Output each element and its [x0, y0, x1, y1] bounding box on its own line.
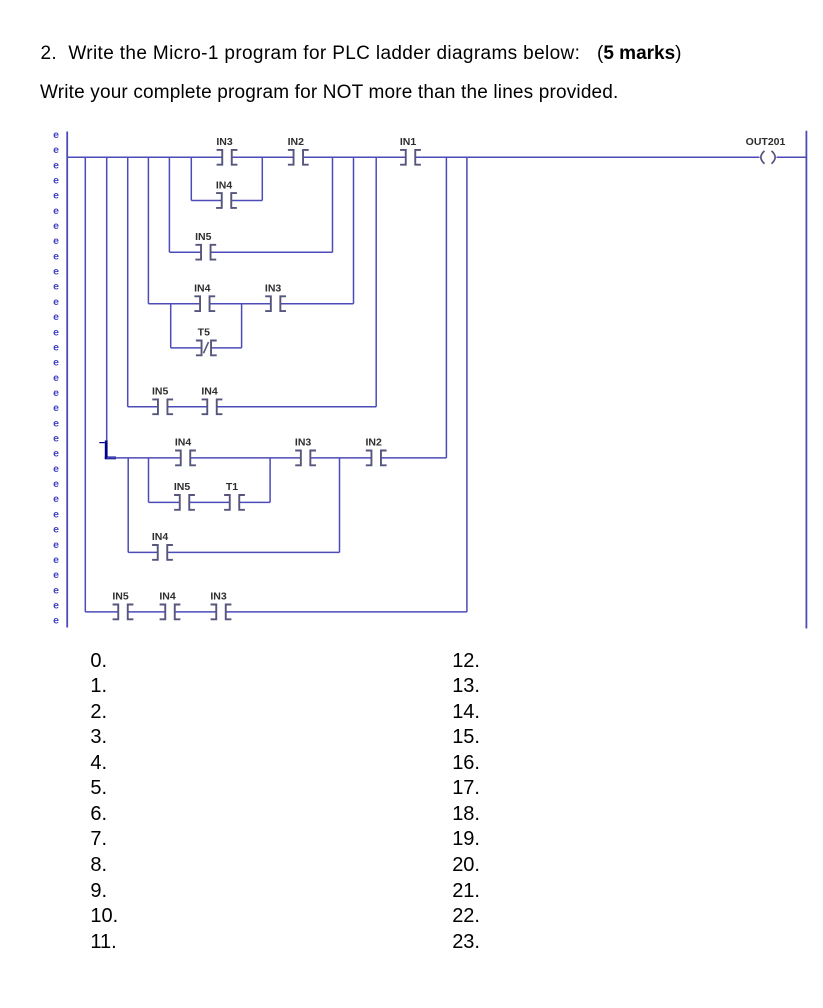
T5 branch left vertical: [170, 304, 172, 348]
svg-text:IN4: IN4: [159, 591, 176, 603]
contact IN3 (rung 1): [216, 136, 237, 165]
row 2 right vertical up to rung 1: [261, 157, 263, 200]
contact IN4 (row 9): [159, 591, 180, 620]
T5 branch right vertical: [241, 304, 243, 348]
row 9 wire segment 1: [85, 611, 118, 613]
row 9 right vertical up to rung 1: [466, 157, 468, 612]
branch vertical to IN4 parallel row (x=191): [190, 157, 192, 200]
contact IN5 (row 9): [112, 591, 133, 620]
svg-text:e: e: [53, 281, 59, 293]
svg-text:e: e: [53, 341, 59, 353]
rung 1 wire to right rail: [777, 156, 807, 158]
row 6 wire segment 4: [381, 457, 446, 459]
svg-text:e: e: [53, 539, 59, 551]
row 9 wire segment 2: [128, 611, 166, 613]
svg-text:e: e: [53, 417, 59, 429]
contact T5 normally-closed: [196, 327, 217, 356]
svg-text:IN1: IN1: [400, 136, 417, 148]
svg-text:e: e: [53, 250, 59, 262]
IN5 row wire segment 1: [169, 251, 201, 253]
svg-text:e: e: [53, 357, 59, 369]
contact IN1 (rung 1): [400, 136, 421, 165]
row 8 wire segment 1: [128, 551, 158, 553]
row 9 wire segment 3: [175, 611, 217, 613]
svg-text:e: e: [53, 478, 59, 490]
contact IN4 (row 5): [201, 386, 222, 415]
svg-text:IN4: IN4: [201, 386, 218, 398]
rung 1 wire segment 4: [415, 156, 759, 158]
contact IN2 (row 6): [366, 437, 387, 466]
svg-text:IN5: IN5: [152, 386, 169, 398]
svg-text:IN3: IN3: [216, 136, 233, 148]
svg-text:e: e: [53, 569, 59, 581]
svg-text:T1: T1: [226, 481, 238, 493]
row 2 wire (IN4 branch) segment 2: [231, 200, 262, 202]
svg-text:e: e: [53, 326, 59, 338]
contact IN4 (row 8): [152, 531, 173, 560]
row 5 wire segment 2: [167, 406, 207, 408]
svg-text:IN4: IN4: [194, 283, 211, 295]
svg-text:e: e: [53, 615, 59, 627]
svg-text:e: e: [53, 387, 59, 399]
IN5 row wire segment 2: [211, 251, 333, 253]
row 3 wire segment 2: [210, 303, 271, 305]
svg-text:e: e: [53, 433, 59, 445]
contact IN3 (row 9): [210, 591, 231, 620]
row 7 right vertical up to row 6: [269, 458, 271, 503]
svg-text:e: e: [53, 402, 59, 414]
IN5 row right vertical up to rung 1: [332, 157, 334, 252]
row 6 wire segment 3: [310, 457, 371, 459]
svg-text:e: e: [53, 190, 59, 202]
svg-text:e: e: [53, 129, 59, 141]
svg-text:IN3: IN3: [265, 283, 282, 295]
right power rail: [805, 131, 807, 629]
svg-text:e: e: [53, 508, 59, 520]
contact IN4 (row 3): [194, 283, 215, 312]
svg-text:IN4: IN4: [175, 437, 192, 449]
contact IN2 (rung 1): [288, 136, 309, 165]
svg-text:e: e: [53, 524, 59, 536]
row 5 right vertical up to rung 1: [375, 157, 377, 406]
row 6 wire segment 2: [190, 457, 301, 459]
branch vertical to row 5 (x=128): [127, 157, 129, 406]
svg-text:IN5: IN5: [195, 231, 212, 243]
svg-text:e: e: [53, 493, 59, 505]
rung 1 wire segment 2: [232, 156, 294, 158]
row 7 wire segment 3: [239, 501, 270, 503]
row 8 right vertical up to row 6: [339, 458, 341, 553]
svg-text:e: e: [53, 463, 59, 475]
contact IN3 (row 6): [295, 437, 316, 466]
rung 1 wire segment 3: [303, 156, 406, 158]
svg-text:e: e: [53, 372, 59, 384]
left power rail: [66, 132, 68, 628]
T5 row wire segment 1: [171, 347, 202, 349]
svg-text:IN3: IN3: [210, 591, 227, 603]
svg-text:e: e: [53, 220, 59, 232]
row 3 right vertical up to rung 1: [353, 157, 355, 303]
svg-text:IN4: IN4: [216, 179, 233, 191]
contact IN4 (row 6): [175, 437, 196, 466]
row 2 wire (IN4 branch) segment 1: [191, 200, 221, 202]
svg-text:IN5: IN5: [174, 481, 191, 493]
svg-text:e: e: [53, 235, 59, 247]
contact T1 (row 7): [224, 481, 245, 510]
row 3 wire segment 3: [280, 303, 353, 305]
cursor marker L at row 6 corner: [99, 441, 116, 459]
branch vertical to row 6 (x=107): [106, 157, 108, 440]
svg-text:e: e: [53, 144, 59, 156]
branch vertical to row 9 (x=85): [84, 157, 86, 612]
contact IN3 (row 3): [265, 283, 286, 312]
contact IN5 (row 5): [152, 386, 173, 415]
row 3 wire segment 1: [148, 303, 200, 305]
row 5 wire segment 3: [217, 406, 376, 408]
svg-text:e: e: [53, 448, 59, 460]
rung 1 wire segment 1: [67, 156, 222, 158]
branch vertical to IN5 row (x=169): [168, 157, 170, 252]
svg-text:e: e: [53, 554, 59, 566]
contact IN4 (row 2): [216, 179, 237, 208]
svg-text:IN3: IN3: [295, 437, 312, 449]
svg-text:T5: T5: [198, 327, 210, 339]
svg-text:e: e: [53, 174, 59, 186]
row 9 wire segment 4: [226, 611, 467, 613]
svg-text:OUT201: OUT201: [746, 136, 786, 148]
output coil OUT201: [746, 136, 786, 164]
svg-text:e: e: [53, 311, 59, 323]
row 7 left vertical: [148, 458, 150, 503]
row 6 wire segment 1: [107, 457, 181, 459]
row 8 wire segment 2: [167, 551, 339, 553]
branch vertical to row 3 (x=148): [147, 157, 149, 303]
svg-text:IN5: IN5: [112, 591, 129, 603]
svg-text:e: e: [53, 159, 59, 171]
row 8 left vertical: [127, 458, 129, 553]
svg-text:IN2: IN2: [366, 437, 383, 449]
svg-text:e: e: [53, 584, 59, 596]
row 6 right vertical up to rung 1: [445, 157, 447, 458]
contact IN5 (IN5 row): [195, 231, 216, 260]
contact IN5 (row 7): [174, 481, 195, 510]
T5 row wire segment 2: [211, 347, 242, 349]
svg-text:IN4: IN4: [152, 531, 169, 543]
svg-text:IN2: IN2: [288, 136, 305, 148]
row 7 wire segment 2: [189, 501, 230, 503]
svg-text:e: e: [53, 205, 59, 217]
svg-text:e: e: [53, 600, 59, 612]
row 5 wire segment 1: [128, 406, 158, 408]
left margin column of e characters: [53, 129, 59, 627]
row 7 wire segment 1: [149, 501, 180, 503]
svg-text:e: e: [53, 296, 59, 308]
svg-text:e: e: [53, 266, 59, 278]
